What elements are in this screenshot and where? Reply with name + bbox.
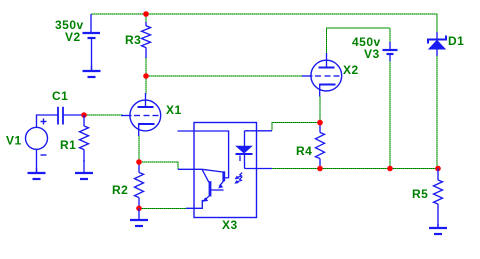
ground V2 bbox=[83, 66, 101, 77]
label X1 bbox=[166, 103, 182, 117]
svg-text:C1: C1 bbox=[52, 89, 68, 103]
triode X2 bbox=[302, 53, 342, 97]
phototransistor Q inside X3 bbox=[178, 131, 229, 208]
resistor R4 bbox=[316, 123, 325, 169]
wire C1 node to X1 grid bbox=[84, 114, 123, 116]
wire R2 bottom node to X3 emitter pin bbox=[139, 207, 186, 209]
node R3 bottom / X1 plate bbox=[143, 73, 149, 79]
wire V3 top stub bbox=[389, 28, 391, 43]
LED inside X3 bbox=[236, 131, 273, 169]
node D1-R5 bbox=[435, 166, 441, 172]
resistor R5 bbox=[434, 169, 443, 228]
label R1 bbox=[60, 138, 76, 152]
label R4 bbox=[296, 144, 312, 158]
resistor R2 bbox=[135, 162, 144, 208]
svg-text:R5: R5 bbox=[412, 187, 428, 201]
node C1-R1-grid junction bbox=[81, 112, 87, 118]
label R5 bbox=[412, 187, 428, 201]
wire R3 bottom to plate node bbox=[145, 57, 147, 76]
svg-text:R4: R4 bbox=[296, 144, 312, 158]
node R4 bottom bbox=[317, 166, 323, 172]
label V3 bbox=[364, 47, 380, 61]
label R2 bbox=[112, 183, 128, 197]
wire R2 node to X3 collector pin bbox=[139, 162, 178, 169]
svg-text:D1: D1 bbox=[448, 34, 464, 48]
label C1 bbox=[52, 89, 68, 103]
ground V1 bbox=[28, 168, 46, 179]
capacitor C1 bbox=[58, 107, 84, 125]
node R3 top bbox=[143, 11, 149, 17]
diode D1 bbox=[428, 32, 446, 56]
node V3 bottom bbox=[387, 166, 393, 172]
ground R1 bbox=[75, 160, 93, 179]
voltage source V1 bbox=[26, 115, 59, 172]
label X2 bbox=[343, 63, 359, 77]
wire X1 cathode down to R2 node bbox=[138, 135, 140, 162]
node R2 top bbox=[136, 159, 142, 165]
label X3 bbox=[222, 218, 238, 232]
node R4 top bbox=[317, 120, 323, 126]
svg-text:V1: V1 bbox=[6, 134, 22, 148]
svg-text:V3: V3 bbox=[364, 47, 380, 61]
svg-text:R2: R2 bbox=[112, 183, 128, 197]
wire X3 anode pin up and right to R4 top bbox=[272, 123, 320, 131]
svg-text:R1: R1 bbox=[60, 138, 76, 152]
battery V3 bbox=[383, 42, 398, 61]
battery V2 bbox=[83, 14, 101, 70]
wire X2 cathode down to R4 node bbox=[319, 96, 321, 123]
ground R2 bbox=[130, 208, 148, 226]
label R3 bbox=[125, 33, 141, 47]
optocoupler X3 box bbox=[194, 123, 257, 218]
label V1 bbox=[6, 134, 22, 148]
node R2 bottom bbox=[136, 206, 142, 212]
wire V3 bottom to bus bbox=[389, 60, 391, 169]
wire grid bus X1-plate-node to X2 grid bbox=[146, 75, 304, 77]
wire D1 top drop bbox=[436, 13, 438, 33]
triode X1 bbox=[121, 93, 161, 136]
wire bottom bus X3 cathode pin to R5 bbox=[272, 168, 438, 170]
svg-text:R3: R3 bbox=[125, 33, 141, 47]
wire top rail (V2 plus to D1) bbox=[91, 13, 438, 15]
ground R5 bbox=[429, 224, 447, 234]
resistor R1 bbox=[80, 115, 89, 162]
wire X2 plate top run to V3 bbox=[327, 28, 391, 53]
label 450v bbox=[352, 35, 381, 49]
wire plate-node down to X1 plate bbox=[145, 76, 147, 94]
wire D1 bottom to bus bbox=[436, 55, 438, 169]
svg-text:X2: X2 bbox=[343, 63, 359, 77]
svg-text:X3: X3 bbox=[222, 218, 238, 232]
svg-text:V2: V2 bbox=[65, 30, 81, 44]
label D1 bbox=[448, 34, 464, 48]
resistor R3 bbox=[142, 22, 151, 58]
wire R3 top stub bbox=[145, 14, 147, 23]
photon arrows X3 bbox=[234, 173, 242, 184]
label 350v bbox=[55, 18, 84, 32]
svg-text:X1: X1 bbox=[166, 103, 182, 117]
label V2 bbox=[65, 30, 81, 44]
